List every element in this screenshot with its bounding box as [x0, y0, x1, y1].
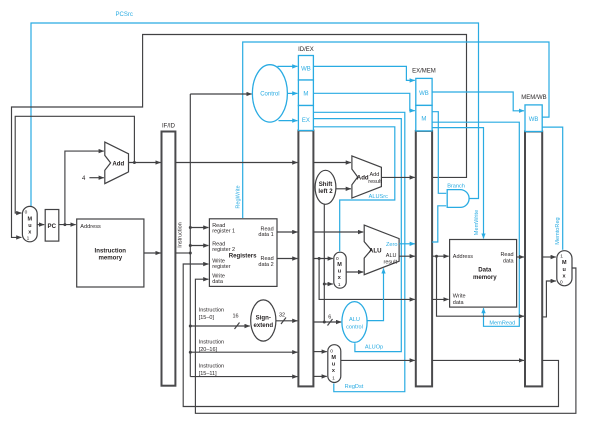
svg-text:Instruction: Instruction	[199, 340, 224, 346]
svg-text:Instruction: Instruction	[177, 222, 183, 247]
node immediate branch	[323, 321, 326, 324]
wire ALUOp control from EX box down to ALU control	[313, 119, 401, 352]
svg-text:result: result	[368, 179, 382, 185]
wire sign-extend output to ID/EX	[276, 320, 298, 322]
wire instruction [15-0] to Sign-extend	[190, 325, 249, 327]
svg-text:ALUSrc: ALUSrc	[369, 194, 388, 200]
svg-text:Instruction: Instruction	[199, 364, 224, 370]
svg-text:EX: EX	[302, 118, 310, 124]
svg-text:ALU: ALU	[369, 248, 382, 255]
svg-text:Shift: Shift	[319, 181, 333, 188]
wire instruction out of IF/ID	[175, 252, 190, 254]
wire ALUSrc mux to ALU	[346, 271, 363, 273]
wire RegWrite from MEM/WB WB box over the top to Registers	[243, 42, 549, 218]
svg-text:result: result	[384, 259, 398, 265]
svg-text:Add: Add	[112, 160, 124, 167]
svg-text:Write: Write	[453, 294, 466, 300]
wire Read data from data memory to MEM/WB	[517, 256, 524, 258]
wire RegDst mux to EX/MEM (write register number)	[341, 359, 415, 361]
oval ALU control	[342, 302, 367, 343]
wire MemWrite control from EX/MEM M down to data memory	[432, 128, 483, 239]
wire immediate from ID/EX to ALU control	[313, 321, 341, 323]
pipeline register EX/MEM	[416, 131, 432, 387]
svg-text:0: 0	[330, 349, 333, 355]
wire read data from MEM/WB to right mux input 1	[542, 256, 556, 258]
svg-text:32: 32	[279, 313, 285, 319]
oval Sign-extend	[251, 300, 276, 341]
gate AND (branch and zero)	[447, 190, 469, 208]
wire instruction memory to IF/ID	[144, 252, 161, 254]
svg-text:M: M	[562, 260, 567, 266]
svg-text:Instruction: Instruction	[95, 248, 127, 255]
svg-text:memory: memory	[473, 274, 497, 281]
pipeline register ID/EX	[298, 131, 313, 387]
svg-text:Data: Data	[478, 267, 492, 274]
svg-text:register 1: register 1	[212, 229, 235, 235]
adder Add (PC+4)	[105, 142, 129, 184]
svg-text:Zero: Zero	[386, 242, 398, 248]
node instruction junctions	[189, 226, 192, 229]
svg-text:6: 6	[328, 315, 331, 321]
svg-text:u: u	[563, 267, 566, 273]
wire ID/EX WB to EX/MEM WB	[313, 66, 414, 80]
wire Read data 1 to ID/EX	[277, 231, 297, 233]
wire ALU result from EX/MEM to data memory Address	[432, 255, 449, 257]
mux M1 (PCSrc mux)	[22, 206, 37, 241]
oval Control	[252, 65, 287, 122]
svg-text:MemRead: MemRead	[489, 321, 515, 327]
wire PC+4 from IF/ID to ID/EX	[175, 162, 297, 164]
block Registers	[209, 219, 277, 287]
svg-text:[15–0]: [15–0]	[199, 315, 215, 321]
wire instruction to Control	[190, 93, 251, 95]
svg-text:extend: extend	[253, 322, 273, 329]
box ID/EX WB	[298, 56, 313, 81]
adder Add result (branch target)	[352, 156, 382, 198]
svg-text:register: register	[212, 264, 231, 270]
wire mux to PC	[37, 224, 44, 226]
svg-text:Branch: Branch	[447, 184, 465, 190]
svg-text:ALUOp: ALUOp	[365, 345, 383, 351]
wire PC to instruction memory Address	[59, 224, 76, 226]
svg-text:Add: Add	[370, 172, 380, 178]
svg-text:MemtoReg: MemtoReg	[555, 217, 561, 244]
box EX/MEM WB	[416, 78, 432, 105]
svg-text:control: control	[346, 324, 363, 330]
wire write-back data from mux around bottom to Registers Write data	[195, 268, 576, 413]
wire PCSrc control from AND gate up over the top to PC mux select	[31, 23, 479, 206]
box ID/EX M	[298, 80, 313, 106]
svg-text:data 1: data 1	[258, 232, 273, 238]
svg-text:1: 1	[27, 235, 30, 241]
svg-text:memory: memory	[98, 255, 122, 262]
svg-text:left 2: left 2	[318, 188, 333, 195]
wire write register number from EX/MEM to MEM/WB	[432, 359, 524, 361]
svg-text:M: M	[331, 355, 336, 361]
svg-text:RegDst: RegDst	[345, 384, 364, 390]
wire Zero from EX/MEM to AND gate	[432, 206, 446, 242]
svg-text:Registers: Registers	[229, 253, 257, 260]
svg-text:MemWrite: MemWrite	[474, 210, 480, 235]
svg-text:Control: Control	[260, 92, 279, 98]
wire read data 2 down to EX/MEM (store data)	[319, 259, 415, 300]
svg-text:0: 0	[25, 209, 28, 215]
svg-text:1: 1	[338, 282, 341, 288]
node read data 2 branch	[318, 257, 321, 260]
wire store data from EX/MEM to data memory Write data	[432, 298, 449, 300]
svg-text:ID/EX: ID/EX	[298, 47, 314, 53]
svg-text:EX/MEM: EX/MEM	[412, 68, 436, 74]
wire ALU control to ALU	[367, 268, 383, 320]
oval Shift left 2	[315, 170, 336, 204]
wire immediate to ALUSrc mux input 1	[324, 283, 333, 285]
register PC	[45, 210, 59, 242]
wire Shift left 2 to branch Add	[336, 188, 351, 190]
svg-text:Sign-: Sign-	[256, 315, 271, 322]
wire PC+4 loop from Add output to PC mux input 0	[15, 116, 134, 213]
svg-text:RegWrite: RegWrite	[235, 185, 241, 208]
svg-text:Address: Address	[453, 254, 473, 260]
node PC branch	[63, 223, 66, 226]
wire Read data 1 from ID/EX to ALU	[313, 231, 363, 233]
svg-text:MEM/WB: MEM/WB	[521, 95, 546, 101]
wire Control to WB	[278, 65, 298, 67]
svg-text:ALU: ALU	[386, 253, 397, 259]
wire [20-16] from ID/EX to RegDst mux input 0	[313, 351, 326, 353]
alu ALU	[364, 225, 399, 275]
svg-text:WB: WB	[301, 67, 311, 73]
svg-text:[15–11]: [15–11]	[199, 371, 217, 377]
wire ID/EX M to EX/MEM M	[313, 93, 414, 110]
pipeline register MEM/WB	[525, 132, 542, 387]
svg-text:data 2: data 2	[258, 262, 273, 268]
node immediate to mux branch	[323, 283, 326, 286]
svg-text:M: M	[421, 117, 426, 123]
wire ALU result down under data memory to MEM/WB	[437, 256, 525, 316]
svg-text:1: 1	[332, 376, 335, 382]
wire PC up to Add input	[65, 151, 104, 225]
svg-text:0: 0	[560, 279, 563, 285]
svg-text:M: M	[28, 216, 33, 222]
box MEM/WB WB	[525, 105, 542, 132]
wire EX/MEM WB to MEM/WB WB	[432, 92, 524, 111]
svg-text:u: u	[28, 223, 31, 229]
svg-text:Address: Address	[80, 224, 101, 230]
box ID/EX EX	[298, 106, 313, 131]
wire immediate up to Shift left 2	[323, 204, 325, 322]
wire ALU result to EX/MEM	[399, 255, 415, 257]
wire instruction [20-16] to ID/EX	[190, 351, 297, 353]
svg-text:Add: Add	[357, 174, 369, 181]
wire instruction distribution vertical	[189, 94, 191, 377]
wire write register number from MEM/WB around bottom to Registers Write register	[183, 264, 558, 407]
svg-text:M: M	[303, 92, 308, 98]
mux M3 (RegDst mux)	[328, 345, 341, 383]
svg-text:Instruction: Instruction	[199, 308, 224, 314]
svg-text:PC: PC	[48, 223, 57, 230]
svg-text:16: 16	[233, 314, 239, 320]
wire MemtoReg from MEM/WB WB to right mux select	[542, 127, 563, 250]
svg-text:1: 1	[560, 254, 563, 260]
wire ALUSrc control from EX box down to ALUSrc mux	[313, 127, 394, 251]
svg-text:WB: WB	[529, 117, 539, 123]
svg-text:data: data	[503, 259, 515, 265]
wire Control to M	[287, 92, 297, 94]
wire branch target Add to EX/MEM	[381, 176, 414, 178]
svg-text:Read: Read	[500, 252, 513, 258]
node ALU result branch	[435, 255, 438, 258]
instruction memory	[77, 219, 144, 287]
svg-text:ALU: ALU	[349, 317, 360, 323]
pipeline register IF/ID	[162, 132, 176, 386]
node Add output branch	[133, 161, 136, 164]
wire PC+4 from ID/EX to branch Add	[313, 162, 351, 164]
wire Read data 2 from ID/EX to ALUSrc mux	[313, 258, 332, 260]
svg-text:[20–16]: [20–16]	[199, 347, 218, 353]
wire instruction [15-11] to ID/EX	[190, 376, 297, 378]
svg-text:u: u	[332, 362, 335, 368]
svg-text:IF/ID: IF/ID	[162, 124, 176, 130]
wire instruction to Read register 1	[190, 227, 208, 229]
wire ALU result from MEM/WB to right mux input 0	[542, 281, 556, 317]
wire branch target from EX/MEM around top-left to PC mux input 1	[12, 35, 467, 238]
svg-text:WB: WB	[419, 91, 429, 97]
box EX/MEM M	[416, 105, 432, 130]
wire instruction to Read register 2	[190, 245, 208, 247]
wire Control to EX	[279, 120, 298, 122]
svg-text:data: data	[212, 279, 224, 285]
wire RegDst control from EX box down to RegDst mux	[313, 112, 404, 391]
wire MemRead control from EX/MEM M down to data memory	[432, 122, 519, 326]
wire Add output to IF/ID	[129, 162, 161, 164]
svg-text:data: data	[453, 300, 465, 306]
svg-text:0: 0	[336, 256, 339, 262]
wire Branch control from EX/MEM M to AND gate	[432, 112, 446, 194]
svg-text:u: u	[338, 269, 341, 275]
svg-text:PCSrc: PCSrc	[116, 12, 133, 18]
svg-text:M: M	[337, 262, 342, 268]
block Data memory	[450, 240, 517, 308]
mux M2 (ALUSrc mux)	[334, 252, 346, 288]
mux M4 (MemtoReg mux)	[557, 251, 572, 286]
wire Zero flag to EX/MEM	[399, 243, 415, 245]
wire Read data 2 to ID/EX	[277, 258, 297, 260]
wire [15-11] from ID/EX to RegDst mux input 1	[313, 375, 326, 377]
